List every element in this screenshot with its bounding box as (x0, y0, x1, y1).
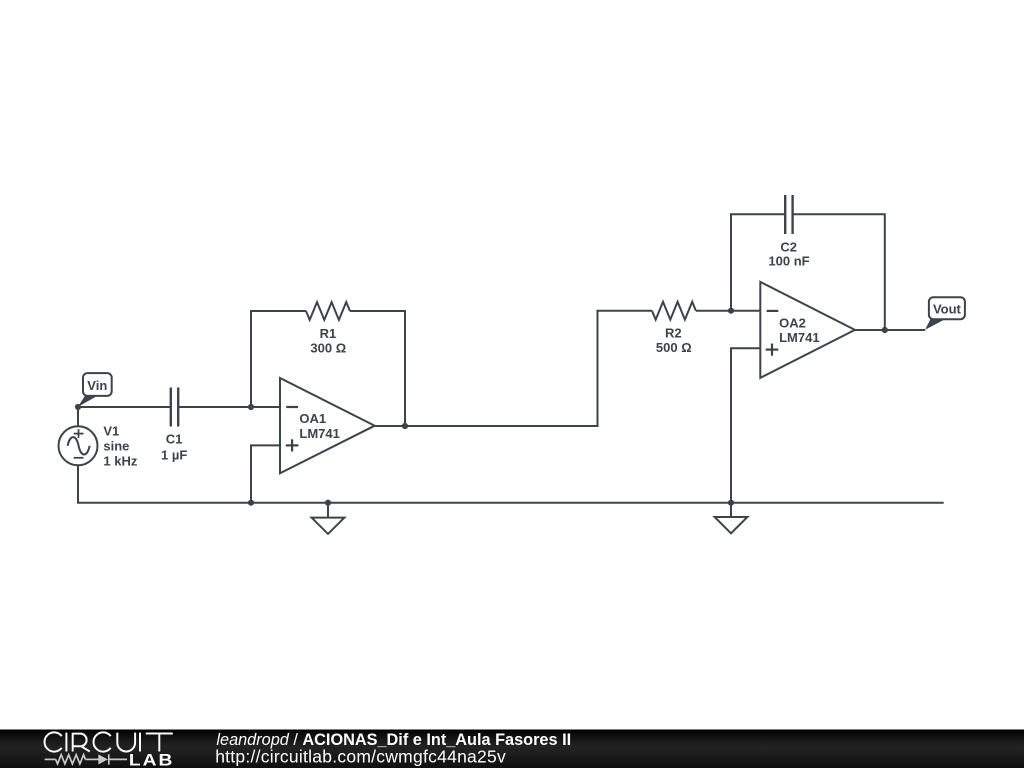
node dot OA1 plus on rail (248, 500, 254, 506)
svg-text:sine: sine (103, 438, 129, 453)
logo diode triangle (98, 754, 108, 764)
svg-text:C2: C2 (780, 239, 797, 254)
ground symbol 1 triangle (312, 518, 345, 534)
wire C2 branch up and left plate (731, 214, 785, 310)
svg-text:R2: R2 (665, 325, 682, 340)
wire R2 to OA2 inverting input (696, 310, 760, 312)
ground symbol 2 triangle (715, 517, 748, 533)
op-amp OA1 plus sign (286, 439, 299, 451)
svg-text:R1: R1 (320, 326, 337, 341)
wire ground rail and V1 bottom (78, 465, 944, 502)
node dot Vin (75, 404, 81, 410)
node dot C2 branch at OA2 input (728, 308, 734, 314)
wire Vin node to C1 and V1 top (78, 407, 171, 426)
svg-text:Vout: Vout (933, 302, 962, 317)
wire OA1 plus input down to ground rail (251, 445, 280, 502)
node dot C2 at OA2 output (882, 327, 888, 333)
op-amp OA1 minus sign (286, 406, 298, 408)
wire C1 to OA1 inverting input (178, 406, 280, 408)
logo resistor-diode line (45, 754, 127, 764)
voltage source V1 minus sign (74, 457, 84, 459)
wire OA1 output right, up, and to R2 (375, 311, 652, 426)
resistor R1 zigzag (306, 302, 350, 320)
wire R1 right then down to output (350, 311, 405, 426)
resistor R2 zigzag (652, 302, 696, 320)
flag Vout pointer (925, 319, 945, 330)
svg-text:1 µF: 1 µF (161, 447, 187, 462)
op-amp OA2 plus sign (766, 344, 779, 356)
wire OA2 output to Vout (855, 329, 925, 331)
capacitor C2 plates (785, 195, 792, 234)
svg-text:500 Ω: 500 Ω (656, 340, 692, 355)
ground symbol 2 stub (730, 503, 732, 517)
node dot ground 2 (728, 500, 734, 506)
node dot feedback at OA1 output (402, 423, 408, 429)
node dot ground 1 (325, 500, 331, 506)
wire feedback from node up and to R1 (251, 311, 306, 407)
op-amp OA2 triangle (760, 282, 855, 378)
svg-text:100 nF: 100 nF (768, 253, 809, 268)
op-amp OA1 triangle (280, 378, 375, 473)
ground symbol 1 stub (327, 503, 329, 518)
flag Vout box (929, 297, 965, 319)
node dot feedback junction at OA1 input (248, 404, 254, 410)
op-amp OA2 minus sign (767, 310, 779, 312)
svg-text:300 Ω: 300 Ω (310, 340, 346, 355)
svg-text:OA2: OA2 (779, 316, 806, 331)
svg-text:1 kHz: 1 kHz (103, 453, 137, 468)
svg-text:OA1: OA1 (299, 411, 326, 426)
logo LAB text (129, 751, 175, 768)
svg-text:V1: V1 (103, 423, 119, 438)
logo CIRCUIT letters (45, 732, 173, 751)
capacitor C1 plates (171, 388, 178, 427)
footer bar (0, 730, 1024, 768)
voltage source V1 circle (59, 426, 98, 465)
svg-text:http://circuitlab.com/cwmgfc44: http://circuitlab.com/cwmgfc44na25v (215, 747, 506, 767)
wire OA2 plus input down to ground rail (731, 348, 760, 503)
flag Vin box (83, 373, 112, 396)
svg-text:LM741: LM741 (299, 426, 339, 441)
voltage source V1 sine (68, 437, 90, 454)
voltage source V1 plus sign (74, 429, 84, 438)
svg-text:LM741: LM741 (779, 330, 819, 345)
svg-text:LAB: LAB (129, 751, 175, 768)
wire C2 right plate to OA2 output (793, 214, 885, 330)
flag Vin pointer (78, 396, 97, 407)
svg-text:C1: C1 (166, 432, 183, 447)
svg-text:Vin: Vin (87, 378, 107, 393)
